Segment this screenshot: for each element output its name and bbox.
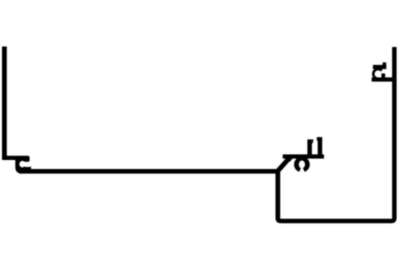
U channel left arm <box>307 139 312 156</box>
bottom-left curl lower tail lip <box>24 166 31 170</box>
U channel left arm barb <box>312 139 313 144</box>
bottom-left C screw-port curl ring <box>16 158 26 171</box>
top-right screw-port ring left half <box>372 68 383 80</box>
diagonal strut <box>275 157 291 174</box>
right box: vertical riser, bottom, tall right wall <box>276 47 397 223</box>
top-right screw-port upturned stub <box>383 62 387 69</box>
mid C screw-port under ledge <box>294 157 310 172</box>
left vertical wall + bottom foot with end lip <box>2 47 30 162</box>
top-right screw-port right belly block <box>381 73 385 78</box>
top-right screw-port top bar <box>373 65 386 69</box>
main bottom web (long horizontal line) <box>19 169 280 174</box>
curl left wall and rounded corner into bottom web <box>15 159 28 173</box>
fillet diagonal to web <box>273 169 279 173</box>
U channel right arm top bulge <box>317 137 318 141</box>
top-right screw-port bottom bar <box>372 77 393 81</box>
fillet diagonal to ledge <box>285 159 293 162</box>
ledge shelf <box>283 154 324 158</box>
U channel right arm <box>318 137 323 156</box>
